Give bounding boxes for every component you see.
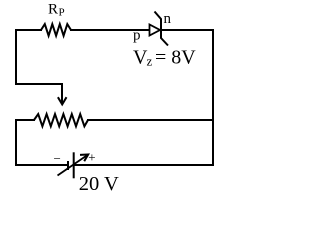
- svg-text:P: P: [59, 7, 65, 19]
- wire bottom right: [74, 164, 214, 166]
- battery arrowhead: [80, 155, 88, 162]
- wire right vertical: [212, 30, 214, 165]
- wire pot row left lead: [16, 119, 34, 121]
- svg-text:n: n: [164, 11, 172, 27]
- svg-text:z: z: [147, 54, 153, 69]
- wire top-right: [161, 29, 213, 31]
- wiper arrowhead: [58, 97, 67, 104]
- wiper arrow shaft: [61, 84, 63, 104]
- wire left vertical lower: [15, 120, 17, 165]
- zener diode D1 anode triangle: [150, 25, 161, 36]
- battery positive plate (long): [73, 152, 75, 178]
- wire top middle: [71, 29, 149, 31]
- wire left vertical upper: [15, 30, 17, 84]
- svg-text:R: R: [48, 2, 58, 18]
- battery negative plate (short): [67, 161, 69, 170]
- wire top-left lead: [16, 29, 41, 31]
- resistor R1 zigzag: [41, 24, 71, 36]
- wire bottom left: [16, 164, 68, 166]
- svg-text:20 V: 20 V: [79, 173, 119, 195]
- wire pot row right lead: [88, 119, 213, 121]
- wire step horizontal: [16, 83, 62, 85]
- svg-text:p: p: [133, 28, 141, 44]
- zener diode D1 cathode bar with hooks: [155, 12, 169, 46]
- potentiometer RH zigzag: [34, 114, 88, 126]
- svg-text:= 8V: = 8V: [155, 47, 196, 69]
- battery variable arrow shaft: [58, 155, 89, 176]
- svg-text:−: −: [54, 151, 61, 166]
- svg-text:+: +: [88, 150, 95, 165]
